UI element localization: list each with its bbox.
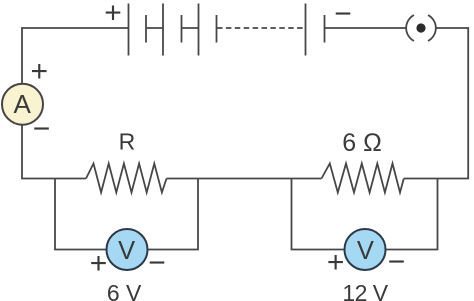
plug key K dot	[416, 23, 425, 32]
wire: cell2 to cell3	[182, 27, 199, 29]
svg-text:6 Ω: 6 Ω	[342, 129, 382, 157]
wire: bottom middle between resistors	[167, 178, 322, 180]
wire: cell1 to cell2	[146, 27, 163, 29]
battery cell 3 long plate	[198, 4, 200, 56]
plug key K left arc	[406, 15, 414, 41]
svg-text:−: −	[388, 246, 406, 279]
svg-text:+: +	[90, 247, 108, 280]
svg-text:R: R	[119, 129, 136, 155]
wire: voltmeter V2 parallel loop	[292, 179, 438, 250]
svg-text:A: A	[14, 89, 32, 119]
plug key K right arc	[428, 15, 436, 41]
svg-text:6 V: 6 V	[107, 280, 142, 301]
voltmeter V1 body	[107, 229, 148, 270]
svg-text:+: +	[327, 246, 345, 279]
svg-text:−: −	[334, 0, 352, 31]
resistor 6-ohm zigzag	[322, 164, 404, 193]
svg-text:+: +	[31, 55, 49, 88]
battery cell 4 short plate	[324, 15, 326, 43]
battery cell 4 long plate	[305, 4, 307, 56]
battery cell 2 short plate	[181, 15, 183, 43]
ammeter A body	[2, 84, 43, 125]
wire: battery - terminal to plug key	[325, 27, 407, 29]
battery cell 2 long plate	[162, 4, 164, 56]
voltmeter V2 body	[345, 229, 386, 270]
battery cell 3 short plate	[216, 15, 218, 43]
wire: dashed continuation (more cells)	[217, 27, 304, 29]
wire: plug key to top-right corner and down right side	[404, 28, 468, 179]
svg-text:V: V	[118, 237, 135, 265]
battery cell 1 long plate	[128, 4, 130, 56]
battery cell 1 short plate	[145, 15, 147, 43]
wire: voltmeter V1 parallel loop	[55, 179, 198, 250]
svg-text:+: +	[104, 0, 122, 30]
svg-text:V: V	[357, 237, 374, 265]
resistor R zigzag	[86, 164, 167, 193]
svg-text:−: −	[33, 112, 51, 145]
wire: left side loop from battery + terminal down through ammeter to bottom-left corner	[22, 28, 128, 179]
svg-text:−: −	[148, 247, 166, 280]
svg-text:12 V: 12 V	[342, 280, 388, 301]
